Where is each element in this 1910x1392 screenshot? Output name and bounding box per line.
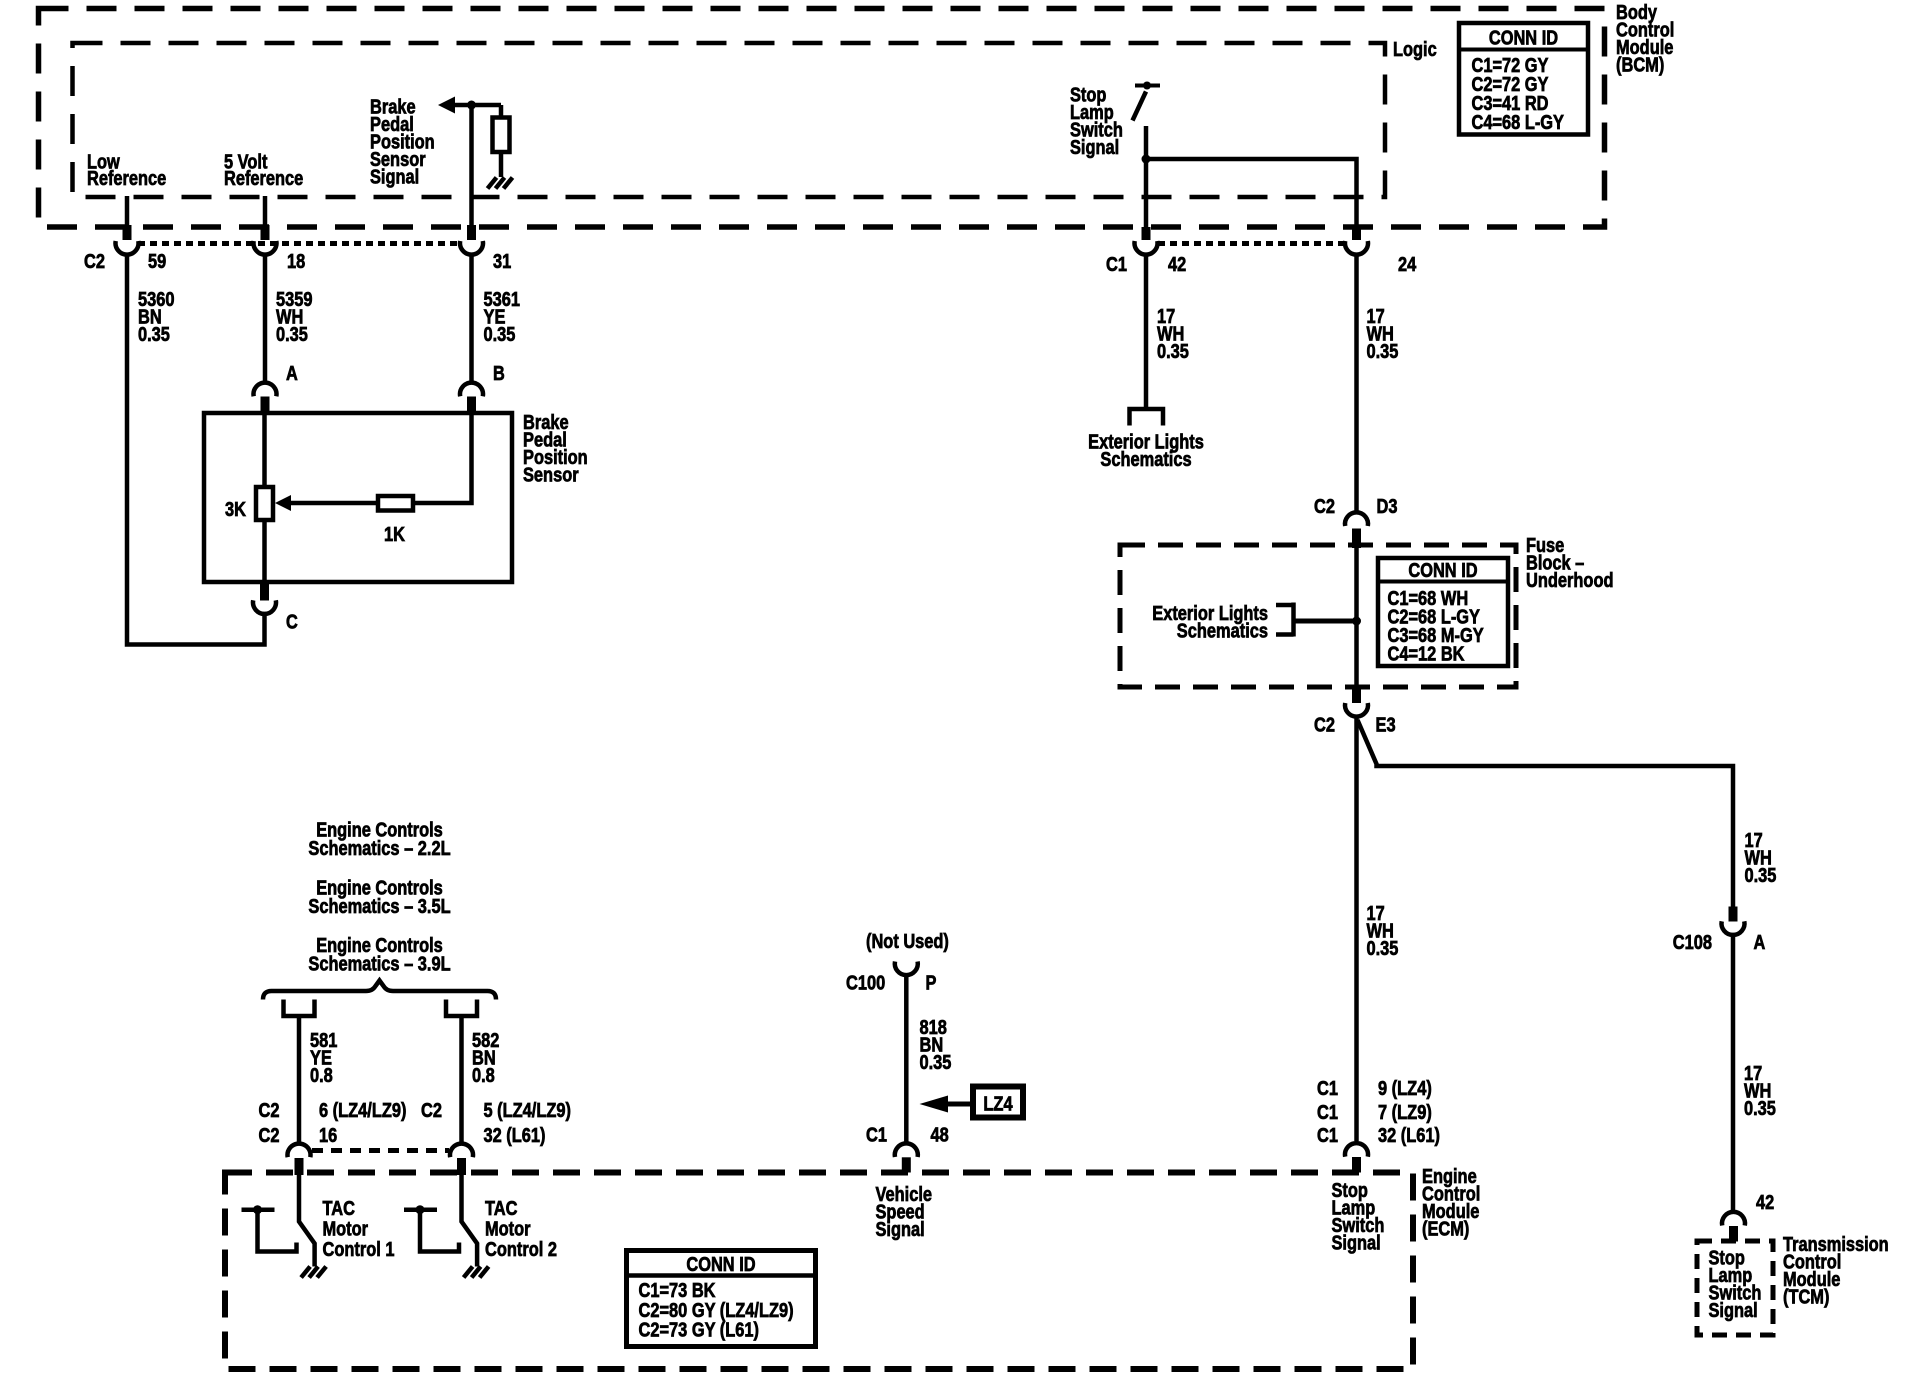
pin 16 (ECM C2): [288, 1144, 311, 1158]
svg-text:Motor: Motor: [323, 1219, 369, 1241]
pin 59 (BCM C2): [123, 225, 132, 240]
svg-text:Schematics – 3.5L: Schematics – 3.5L: [308, 896, 450, 918]
svg-text:Control 1: Control 1: [323, 1239, 395, 1261]
svg-text:C1: C1: [1317, 1125, 1338, 1147]
svg-text:32 (L61): 32 (L61): [1378, 1125, 1440, 1147]
svg-text:C1: C1: [1106, 254, 1127, 276]
svg-text:Underhood: Underhood: [1526, 570, 1614, 592]
svg-text:Schematics: Schematics: [1100, 449, 1191, 471]
svg-text:C4=12 BK: C4=12 BK: [1388, 644, 1465, 666]
wire pin 18 to sensor pin A: [263, 256, 268, 382]
wire sensor signal to pin 31: [469, 105, 474, 225]
pin 31 (BCM C2): [467, 225, 476, 240]
label Vehicle Speed Signal: [876, 1184, 933, 1241]
wire pin 31 to sensor pin B: [469, 256, 474, 382]
wire bracket to ECM pin 16: [297, 1018, 302, 1142]
pin 42 (TCM): [1722, 1212, 1745, 1226]
svg-text:24: 24: [1398, 254, 1417, 276]
stop lamp switch (logic input): [1133, 82, 1161, 121]
pin E3 (fuse block C2): [1352, 688, 1361, 704]
svg-text:(TCM): (TCM): [1783, 1287, 1829, 1309]
resistor R (BCM internal pull-up): [493, 118, 510, 153]
svg-text:0.35: 0.35: [920, 1052, 952, 1074]
svg-text:Logic: Logic: [1393, 39, 1437, 61]
connector C2 dotted line (pins 59/18/31): [138, 241, 460, 246]
ground (TAC motor control 2): [464, 1267, 489, 1278]
wire arrow to resistor corner: [453, 103, 501, 108]
svg-text:Schematics – 3.9L: Schematics – 3.9L: [308, 954, 450, 976]
svg-text:Signal: Signal: [370, 167, 419, 189]
svg-text:C2=73 GY (L61): C2=73 GY (L61): [639, 1320, 760, 1342]
wire label 17 WH 0.35 (pin 24): [1367, 306, 1399, 363]
svg-text:A: A: [286, 363, 298, 385]
svg-text:C4=68 L-GY: C4=68 L-GY: [1472, 112, 1565, 134]
wire 1K to pin B: [413, 413, 472, 503]
connector C1 dotted line (pins 42/24): [1158, 241, 1344, 246]
label TAC Motor Control 2: [485, 1198, 557, 1261]
svg-text:Signal: Signal: [1332, 1233, 1381, 1255]
label Low Reference: [87, 152, 166, 191]
svg-text:LZ4: LZ4: [983, 1094, 1013, 1116]
svg-text:7 (LZ9): 7 (LZ9): [1378, 1102, 1432, 1124]
off-page bracket (TAC motor control 2 wire): [446, 1000, 477, 1017]
wire label 17 WH 0.35 (pin 42): [1157, 306, 1189, 363]
svg-text:0.8: 0.8: [310, 1065, 333, 1087]
svg-text:Reference: Reference: [87, 168, 166, 190]
svg-text:3K: 3K: [225, 499, 246, 521]
wire bracket to ECM pin 32: [459, 1018, 464, 1142]
off-page bracket (TAC motor control 1 wire): [284, 1000, 315, 1017]
svg-text:32 (L61): 32 (L61): [484, 1125, 546, 1147]
svg-text:0.35: 0.35: [484, 324, 516, 346]
svg-text:C1: C1: [1317, 1102, 1338, 1124]
label 5 Volt Reference: [224, 152, 303, 191]
wire label 17 WH 0.35 (to TCM): [1744, 1063, 1776, 1120]
svg-text:Reference: Reference: [224, 168, 303, 190]
connector C100 pin P (not used): [895, 962, 918, 976]
BCM CONN ID table: [1459, 23, 1588, 135]
svg-text:D3: D3: [1377, 496, 1398, 518]
svg-text:E3: E3: [1376, 715, 1396, 737]
pin 24 (BCM C1): [1352, 227, 1361, 240]
wire C108 to TCM pin 42: [1731, 936, 1736, 1211]
svg-text:Control 2: Control 2: [485, 1239, 557, 1261]
Body Control Module (BCM) dashed box: [39, 9, 1605, 228]
wire 5 Volt Reference to pin 18: [263, 196, 268, 225]
svg-text:C2: C2: [84, 251, 105, 273]
label Engine Control Module (ECM): [1422, 1166, 1480, 1241]
svg-text:C2: C2: [259, 1125, 280, 1147]
svg-text:0.35: 0.35: [1745, 865, 1777, 887]
wire junction down to pin 42: [1144, 159, 1149, 227]
svg-text:6 (LZ4/LZ9): 6 (LZ4/LZ9): [319, 1100, 407, 1122]
wire 3K to pin C: [262, 520, 267, 582]
pin A (sensor): [254, 383, 277, 397]
svg-text:0.35: 0.35: [1367, 938, 1399, 960]
svg-text:0.35: 0.35: [1367, 341, 1399, 363]
wiper arrow: [275, 495, 291, 511]
svg-text:C2: C2: [1314, 715, 1335, 737]
connector dashed line (TAC pins): [312, 1148, 449, 1153]
wire pin A to 3K: [262, 413, 267, 487]
svg-text:C2: C2: [259, 1100, 280, 1122]
label Body Control Module (BCM): [1616, 2, 1674, 77]
ground (TAC motor control 1): [301, 1267, 326, 1278]
svg-text:Sensor: Sensor: [523, 465, 579, 487]
svg-text:42: 42: [1168, 254, 1186, 276]
wire pin 59 to sensor pin C: [127, 256, 265, 645]
Fuse Block - Underhood dashed box: [1120, 545, 1516, 687]
svg-text:(BCM): (BCM): [1616, 55, 1664, 77]
svg-text:59: 59: [148, 251, 166, 273]
wire label 5361 YE 0.35: [484, 289, 521, 346]
svg-text:Schematics: Schematics: [1177, 621, 1268, 643]
wire pin 24 to fuse block D3: [1354, 256, 1359, 512]
svg-text:C1=73 BK: C1=73 BK: [639, 1280, 716, 1302]
svg-text:C1: C1: [866, 1125, 887, 1147]
svg-text:Motor: Motor: [485, 1219, 531, 1241]
label Fuse Block - Underhood: [1526, 535, 1614, 592]
svg-text:Signal: Signal: [1070, 137, 1119, 159]
junction node on pin 31 wire: [467, 101, 476, 110]
svg-text:C: C: [286, 612, 298, 634]
Engine Control Module (ECM) dashed box: [225, 1173, 1413, 1370]
wire through fuse block: [1354, 547, 1359, 689]
wire junction to pin 24: [1146, 159, 1357, 227]
svg-text:B: B: [493, 363, 505, 385]
engine code tag LZ4: [973, 1087, 1023, 1118]
Fuse block CONN ID table: [1378, 558, 1508, 666]
svg-text:CONN ID: CONN ID: [686, 1254, 755, 1276]
svg-text:TAC: TAC: [323, 1198, 356, 1220]
Logic dashed box: [73, 43, 1386, 197]
svg-text:0.8: 0.8: [472, 1065, 495, 1087]
wire E3 to ECM stop lamp pin: [1354, 718, 1359, 1142]
connector C108 pin A: [1729, 907, 1738, 922]
wire label 581 YE 0.8: [310, 1030, 337, 1087]
wire E3 branch to C108: [1358, 720, 1734, 907]
ECM CONN ID table: [627, 1251, 816, 1347]
svg-text:(Not Used): (Not Used): [866, 931, 949, 953]
junction node stop lamp signal: [1142, 155, 1151, 164]
svg-text:18: 18: [287, 251, 305, 273]
pin 48 (ECM C1, vehicle speed): [895, 1143, 918, 1157]
wire pin 42 to exterior lights: [1144, 256, 1149, 408]
wire label 5359 WH 0.35: [276, 289, 313, 346]
wire label 17 WH 0.35 (to ECM): [1367, 903, 1399, 960]
svg-text:5 (LZ4/LZ9): 5 (LZ4/LZ9): [484, 1100, 572, 1122]
resistor 1K: [378, 496, 413, 511]
wire label 582 BN 0.8: [472, 1030, 499, 1087]
arrow LZ4 to wire: [920, 1096, 974, 1113]
svg-text:Signal: Signal: [876, 1219, 925, 1241]
label Brake Pedal Position Sensor: [523, 412, 588, 487]
junction node (fuse block): [1352, 617, 1361, 626]
TAC motor control 1 switch: [242, 1175, 315, 1267]
svg-text:0.35: 0.35: [1744, 1098, 1776, 1120]
svg-text:1K: 1K: [384, 524, 405, 546]
svg-text:42: 42: [1756, 1192, 1774, 1214]
wire exterior lights tap: [1295, 619, 1357, 624]
svg-text:TAC: TAC: [485, 1198, 518, 1220]
label Engine Controls Schematics - 3.5L: [308, 878, 450, 919]
label Engine Controls Schematics - 2.2L: [308, 820, 450, 861]
svg-text:C108: C108: [1673, 932, 1712, 954]
pin B (sensor): [460, 383, 483, 397]
pin 42 (BCM C1): [1142, 227, 1151, 240]
label Stop Lamp Switch Signal (ECM): [1332, 1180, 1385, 1255]
svg-text:C2: C2: [421, 1100, 442, 1122]
brace (engine controls schematics): [263, 981, 496, 1000]
pin 32 (ECM C2): [450, 1144, 473, 1158]
label TAC Motor Control 1: [323, 1198, 395, 1261]
Brake Pedal Position Sensor box: [204, 413, 512, 582]
svg-text:A: A: [1754, 932, 1766, 954]
svg-text:C2: C2: [1314, 496, 1335, 518]
pin 9/7/32 (ECM C1, stop lamp switch signal): [1345, 1143, 1368, 1157]
svg-text:48: 48: [931, 1125, 949, 1147]
label Transmission Control Module (TCM): [1783, 1234, 1889, 1309]
svg-text:C100: C100: [846, 973, 885, 995]
svg-text:0.35: 0.35: [1157, 341, 1189, 363]
svg-text:CONN ID: CONN ID: [1489, 28, 1558, 50]
wire switch to junction: [1144, 126, 1149, 159]
label Brake Pedal Position Sensor Signal: [370, 97, 435, 189]
wire corner down to resistor R (logic): [499, 105, 504, 118]
svg-text:P: P: [926, 973, 937, 995]
wire Low Reference to pin 59: [125, 196, 130, 225]
svg-text:Signal: Signal: [1709, 1300, 1758, 1322]
wire C100 to ECM pin 48: [904, 976, 909, 1142]
ground (BCM internal): [488, 178, 513, 189]
wire label 5360 BN 0.35: [138, 289, 175, 346]
Transmission Control Module (TCM) dashed box: [1697, 1241, 1773, 1335]
wire label 818 BN 0.35: [920, 1017, 952, 1074]
resistor 3K (potentiometer): [256, 487, 273, 520]
svg-text:16: 16: [319, 1125, 337, 1147]
label Exterior Lights Schematics (BCM): [1088, 432, 1204, 472]
wire resistor to ground: [499, 152, 504, 177]
svg-text:31: 31: [493, 251, 511, 273]
label Stop Lamp Switch Signal (TCM): [1709, 1248, 1762, 1323]
TAC motor control 2 switch: [404, 1175, 477, 1267]
pin C (sensor): [260, 582, 269, 601]
svg-text:CONN ID: CONN ID: [1408, 560, 1477, 582]
label C1 rows (ECM stop lamp pin): [1317, 1078, 1338, 1147]
label Engine Controls Schematics - 3.9L: [308, 935, 450, 976]
pin 18 (BCM C2): [261, 225, 270, 240]
svg-text:(ECM): (ECM): [1422, 1219, 1469, 1241]
signal direction arrow (Brake Pedal Position Sensor Signal): [438, 97, 455, 114]
svg-text:C1: C1: [1317, 1078, 1338, 1100]
svg-text:0.35: 0.35: [138, 324, 170, 346]
label C2 C2 (TAC pin column 1): [259, 1100, 280, 1147]
label Stop Lamp Switch Signal (BCM): [1070, 85, 1123, 160]
wire wiper to 1K: [290, 501, 378, 506]
pin D3 (fuse block C2): [1345, 512, 1368, 526]
svg-text:0.35: 0.35: [276, 324, 308, 346]
off-page bracket (exterior lights, fuse block): [1276, 603, 1294, 637]
wire label 17 WH 0.35 (to C108): [1745, 830, 1777, 887]
svg-text:9 (LZ4): 9 (LZ4): [1378, 1078, 1432, 1100]
label Exterior Lights Schematics (fuse block): [1152, 603, 1268, 643]
off-page bracket (exterior lights schematics, BCM): [1130, 409, 1164, 426]
svg-text:Schematics – 2.2L: Schematics – 2.2L: [308, 838, 450, 860]
